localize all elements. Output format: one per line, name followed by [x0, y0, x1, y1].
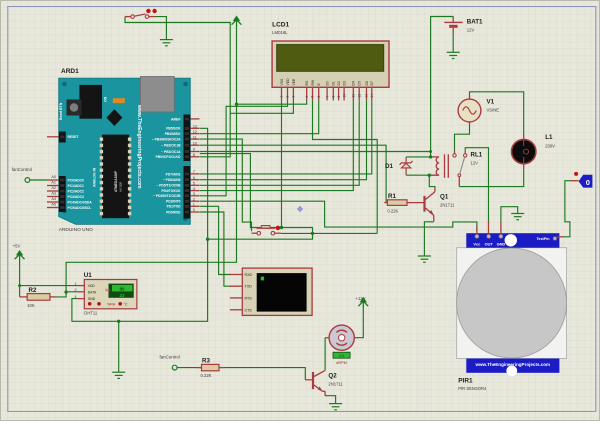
- svg-text:3: 3: [292, 96, 296, 98]
- svg-text:fanControl: fanControl: [12, 167, 32, 172]
- PIR pin stubs: [476, 226, 478, 235]
- svg-text:VSS: VSS: [280, 78, 284, 86]
- svg-text:~ PB2/OC1B: ~ PB2/OC1B: [161, 144, 181, 148]
- Arduino UNO board ARD1: [47, 68, 200, 233]
- LCD pin 2 VDD: [287, 87, 289, 100]
- svg-text:PC5/ADC5/SCL: PC5/ADC5/SCL: [68, 206, 92, 210]
- svg-text:80: 80: [120, 286, 125, 291]
- svg-text:RTS: RTS: [245, 296, 253, 300]
- pin 5: [190, 184, 199, 186]
- wire fanControl to R3: [177, 367, 196, 369]
- ground for BAT1: [447, 52, 460, 58]
- pin 10: [190, 144, 199, 146]
- wire pin11 to pushbutton left: [200, 139, 252, 231]
- right pin header: [184, 115, 191, 162]
- LCD pin 8 D1: [332, 87, 334, 100]
- wire LCD E to pin12: [200, 100, 319, 133]
- svg-text:10K: 10K: [27, 303, 35, 308]
- pushbutton BTN: [252, 226, 281, 236]
- node junction F: [429, 155, 432, 158]
- svg-text:9: 9: [337, 96, 341, 98]
- svg-text:0: 0: [586, 178, 590, 187]
- svg-text:www.TheEngineeringProjects.com: www.TheEngineeringProjects.com: [136, 104, 142, 189]
- origin marker: [297, 206, 303, 212]
- node junction B: [117, 320, 120, 323]
- svg-text:ANALOG IN: ANALOG IN: [93, 167, 97, 187]
- svg-text:12: 12: [193, 130, 197, 134]
- wire Q2 collector to motor: [324, 338, 326, 371]
- wire fanControl to A0: [30, 179, 47, 181]
- svg-text:R2: R2: [29, 287, 37, 294]
- svg-text:2N1711: 2N1711: [440, 203, 455, 208]
- relay RL1: [429, 150, 482, 186]
- pin 9: [190, 151, 199, 153]
- svg-text:RS: RS: [305, 80, 309, 85]
- wire pin2 to PIR Vcc: [200, 201, 477, 231]
- svg-text:PC3/ADC3: PC3/ADC3: [68, 195, 84, 199]
- wire +5V stem to R2: [19, 260, 21, 297]
- node junction G: [428, 174, 431, 177]
- wire LCD D7 to pin7: [200, 100, 372, 173]
- svg-text:D2: D2: [337, 81, 341, 85]
- svg-text:11: 11: [352, 94, 356, 98]
- wire V1 top to L1 top: [470, 92, 524, 134]
- pin A5: [47, 207, 59, 209]
- svg-text:D4: D4: [352, 81, 356, 85]
- pin 11: [190, 138, 199, 140]
- node junction D: [280, 226, 283, 229]
- wire pin9b to button net: [200, 154, 313, 240]
- sensor U1 DHT11: [75, 272, 137, 316]
- wire relay coil to Q1 collector: [429, 175, 435, 187]
- svg-text:10: 10: [193, 141, 197, 145]
- svg-text:A0: A0: [51, 175, 56, 179]
- svg-text:AREF: AREF: [171, 117, 181, 121]
- svg-text:2: 2: [75, 288, 77, 292]
- svg-text:LCD1: LCD1: [272, 22, 289, 29]
- svg-text:Q1: Q1: [440, 194, 449, 201]
- svg-text:14: 14: [370, 94, 374, 98]
- svg-text:~ PD3/INT1/OC2B: ~ PD3/INT1/OC2B: [153, 194, 181, 198]
- svg-text:+5V: +5V: [13, 244, 21, 249]
- svg-text:AU 1126: AU 1126: [119, 182, 123, 192]
- svg-text:D7: D7: [370, 81, 374, 85]
- svg-text:~ PB3/MOSI/OC2A: ~ PB3/MOSI/OC2A: [152, 138, 181, 142]
- svg-text:DHT11: DHT11: [84, 311, 98, 316]
- resistor R1: [384, 193, 423, 214]
- svg-text:D0: D0: [326, 81, 330, 85]
- svg-text:PIR SENSOR4: PIR SENSOR4: [458, 386, 487, 391]
- svg-text:PB5/SCK: PB5/SCK: [166, 127, 181, 131]
- svg-text:PD0/RXD: PD0/RXD: [166, 210, 181, 214]
- capacitor block: [79, 85, 102, 119]
- PIR sensor PIR1: [457, 233, 567, 391]
- wire BAT1 plus to relay rail: [431, 17, 454, 157]
- svg-text:A4: A4: [51, 197, 56, 201]
- svg-text:2: 2: [193, 197, 195, 201]
- reset button: [67, 100, 82, 116]
- svg-text:4: 4: [193, 187, 195, 191]
- svg-text:PD2/INT0: PD2/INT0: [166, 200, 181, 204]
- node junction C: [206, 238, 209, 241]
- wire L1 bottom to relay common: [459, 169, 523, 186]
- wire V1 bottom to relay pole: [455, 126, 470, 151]
- svg-text:12V: 12V: [467, 28, 475, 33]
- ground for Q2: [329, 404, 342, 410]
- svg-text:&gt;: &gt;: [105, 288, 111, 292]
- wire LCD D4 to pin4: [200, 100, 353, 190]
- svg-text:PIR1: PIR1: [458, 378, 473, 385]
- svg-text:0.0: 0.0: [339, 354, 344, 358]
- wire R3 to Q2 base: [225, 368, 306, 380]
- wire LCD RS to power node: [237, 100, 307, 104]
- svg-text:RL1: RL1: [471, 152, 483, 159]
- svg-text:2N1711: 2N1711: [328, 382, 343, 387]
- pin 1: [190, 205, 199, 207]
- source V1 VSINE: [458, 96, 499, 126]
- svg-text:PD1/TXD: PD1/TXD: [167, 205, 182, 209]
- wire LCD D6 to pin6: [200, 100, 367, 179]
- ground for DHT11: [112, 372, 125, 378]
- switch SW1: [125, 9, 157, 19]
- wire power flag down to DHT11 DATA: [66, 25, 236, 292]
- svg-text:PB4/MISO: PB4/MISO: [165, 132, 181, 136]
- svg-text:5: 5: [311, 96, 315, 98]
- wire ground stem DHT: [118, 321, 120, 372]
- svg-text:7: 7: [325, 96, 329, 98]
- LCD LCD1 LM016L: [272, 22, 389, 101]
- svg-text:R3: R3: [202, 358, 210, 365]
- svg-text:VEE: VEE: [292, 78, 296, 86]
- diode D1: [385, 157, 429, 175]
- svg-text:U1: U1: [84, 272, 92, 279]
- svg-text:8: 8: [193, 153, 195, 157]
- svg-text:1: 1: [280, 96, 284, 98]
- svg-text:#RPM: #RPM: [336, 361, 347, 365]
- svg-text:PB0/ICP1/CLKO: PB0/ICP1/CLKO: [156, 155, 181, 159]
- svg-text:PC1/ADC1: PC1/ADC1: [68, 184, 84, 188]
- svg-text:DATA: DATA: [88, 291, 97, 295]
- LCD pin 11 D4: [352, 87, 354, 100]
- svg-text:1: 1: [75, 282, 77, 286]
- pin A3: [47, 196, 59, 198]
- svg-text:TXD: TXD: [245, 285, 253, 289]
- LCD pin 4 RS: [306, 87, 308, 100]
- svg-text:~ PB1/OC1A: ~ PB1/OC1A: [161, 150, 181, 154]
- resistor R3: [196, 358, 225, 378]
- diode diamond: [106, 109, 122, 126]
- AREF pin: [190, 118, 199, 120]
- svg-text:OUT: OUT: [485, 242, 494, 247]
- svg-text:Vcc: Vcc: [473, 242, 481, 247]
- wire BAT1 minus to ground: [452, 34, 454, 52]
- node junction E: [311, 232, 314, 235]
- svg-text:PC4/ADC4/SDA: PC4/ADC4/SDA: [68, 200, 93, 204]
- pin A0: [47, 179, 59, 181]
- ATMEGA328P IC: [102, 135, 129, 219]
- svg-text:0: 0: [193, 208, 195, 212]
- wire LCD VSS down: [281, 100, 283, 227]
- LCD pin 13 D6: [366, 87, 368, 100]
- transistor Q2 2N1711: [305, 370, 343, 395]
- wire probe to TestPin: [563, 181, 571, 237]
- svg-text:8: 8: [332, 96, 336, 98]
- svg-text:D5: D5: [358, 81, 362, 85]
- svg-text:12V: 12V: [471, 161, 479, 166]
- svg-text:0.22K: 0.22K: [387, 209, 398, 214]
- svg-text:GND: GND: [88, 297, 96, 301]
- LCD pin 12 D5: [358, 87, 360, 100]
- pin 7: [190, 173, 199, 175]
- LCD pin 10 D3: [343, 87, 345, 100]
- svg-text:CTS: CTS: [245, 308, 253, 312]
- svg-text:11: 11: [193, 135, 197, 139]
- svg-text:LM016L: LM016L: [272, 30, 288, 35]
- power flag top center: [232, 16, 242, 27]
- virtual terminal VT1: [230, 268, 312, 315]
- svg-text:230V: 230V: [545, 144, 555, 149]
- svg-text:~ PD5/T1/OC0B: ~ PD5/T1/OC0B: [156, 184, 181, 188]
- svg-text:RESET: RESET: [68, 135, 79, 139]
- pin A1: [47, 185, 59, 187]
- wire pin13 long vertical to DHT GND rail: [72, 128, 208, 321]
- wire pin1 to terminal RXD: [200, 206, 231, 274]
- svg-text:0.22K: 0.22K: [201, 373, 212, 378]
- svg-text:R1: R1: [388, 193, 396, 200]
- pin 2: [190, 200, 199, 202]
- svg-text:PC2/ADC2: PC2/ADC2: [68, 189, 84, 193]
- svg-text:1: 1: [193, 203, 195, 207]
- ground for Q1: [418, 256, 431, 262]
- svg-text:%RH: %RH: [107, 302, 116, 306]
- svg-text:D1: D1: [332, 81, 336, 85]
- wire LCD D5 to pin5: [200, 100, 359, 185]
- node junction A: [235, 103, 238, 106]
- svg-text:ARD1: ARD1: [61, 68, 79, 75]
- wire +5V to DHT VDD: [20, 285, 78, 287]
- svg-text:A2: A2: [51, 186, 56, 190]
- pin 0: [190, 211, 199, 213]
- svg-text:VDD: VDD: [88, 284, 96, 288]
- wire DATA node to DHT: [66, 291, 78, 293]
- pin 6: [190, 179, 199, 181]
- svg-text:VDD: VDD: [286, 78, 290, 86]
- svg-text:2: 2: [286, 96, 290, 98]
- wire switch right to ground: [155, 17, 167, 40]
- svg-text:6: 6: [317, 96, 321, 98]
- RESET pin: [47, 136, 59, 138]
- svg-text:PD7/AIN1: PD7/AIN1: [166, 172, 181, 176]
- motor M1: [325, 325, 358, 365]
- node junction H: [64, 290, 67, 293]
- wire LCD RW to pushbutton: [313, 100, 378, 233]
- battery BAT1: [444, 16, 483, 34]
- pin 4: [190, 190, 199, 192]
- wire R2 to DATA node: [57, 292, 67, 297]
- wire button right to RW net: [281, 232, 377, 234]
- resistor R2: [20, 287, 57, 308]
- svg-text:6: 6: [193, 176, 195, 180]
- svg-text:°C: °C: [124, 302, 128, 306]
- wire Q1 emitter to ground: [424, 222, 433, 256]
- svg-text:ATMEGA328P: ATMEGA328P: [114, 170, 118, 192]
- svg-text:9: 9: [193, 148, 195, 152]
- svg-text:7: 7: [193, 170, 195, 174]
- ground for PIR: [511, 214, 524, 220]
- svg-text:13: 13: [365, 94, 369, 98]
- LCD pin 7 D0: [326, 87, 328, 100]
- svg-text:A3: A3: [51, 191, 56, 195]
- pin A2: [47, 190, 59, 192]
- LCD pin 1 VSS: [281, 87, 283, 100]
- svg-text:D6: D6: [365, 81, 369, 85]
- svg-text:D1: D1: [385, 163, 393, 170]
- wire LCD VEE: [230, 100, 293, 113]
- svg-text:A5: A5: [51, 202, 56, 206]
- svg-text:ON: ON: [104, 96, 108, 102]
- wire motor to +12V: [358, 307, 363, 338]
- svg-text:A1: A1: [51, 180, 56, 184]
- LCD pin 3 VEE: [292, 87, 294, 100]
- svg-text:V1: V1: [487, 99, 495, 106]
- LCD pin 14 D7: [371, 87, 373, 100]
- svg-text:PC0/ADC0: PC0/ADC0: [68, 178, 84, 182]
- svg-text:13: 13: [193, 125, 197, 129]
- wire pin0 to terminal TXD: [200, 212, 231, 286]
- wire Q2 emitter to ground: [325, 396, 336, 404]
- ground for switch: [160, 40, 173, 46]
- svg-text:4: 4: [305, 96, 309, 98]
- svg-text:GND: GND: [497, 242, 506, 247]
- wire LCD VDD to pin3: [200, 100, 288, 195]
- wire switch left to bus: [125, 17, 230, 157]
- svg-text:BAT1: BAT1: [467, 19, 483, 26]
- LCD pin 6 E: [318, 87, 320, 100]
- svg-text:RW: RW: [311, 79, 315, 85]
- LCD pin 5 RW: [312, 87, 314, 100]
- svg-text:Q2: Q2: [328, 373, 337, 380]
- wire pin10 to R1: [200, 145, 386, 202]
- svg-text:fanControl: fanControl: [160, 355, 180, 360]
- pin 8: [190, 156, 199, 158]
- pin 13: [190, 127, 199, 129]
- svg-text:D3: D3: [343, 81, 347, 85]
- svg-text:RXD: RXD: [245, 273, 253, 277]
- svg-text:12: 12: [357, 94, 361, 98]
- svg-text:L1: L1: [545, 134, 553, 141]
- wire pin9 long: [200, 151, 431, 153]
- left pin header: [59, 132, 66, 143]
- svg-text:ARDUINO UNO: ARDUINO UNO: [59, 227, 93, 233]
- pin 12: [190, 133, 199, 135]
- svg-text:4: 4: [75, 295, 77, 299]
- usb connector: [140, 77, 174, 113]
- svg-text:TestPin: TestPin: [536, 237, 550, 241]
- pin A4: [47, 201, 59, 203]
- svg-text:5: 5: [193, 182, 195, 186]
- transistor Q1 2N1711: [425, 187, 456, 221]
- svg-text:33: 33: [120, 293, 125, 298]
- lamp L1 230V: [512, 134, 556, 169]
- LCD pin 9 D2: [338, 87, 340, 100]
- logic probe 0: [571, 172, 593, 188]
- svg-text:Reset BTN: Reset BTN: [59, 102, 63, 120]
- svg-text:VSINE: VSINE: [487, 108, 500, 113]
- pin 3: [190, 195, 199, 197]
- wire PIR GND to ground: [501, 207, 518, 221]
- wire relay NO to PIR OUT: [465, 148, 488, 222]
- svg-text:~ PD6/AIN0: ~ PD6/AIN0: [163, 178, 181, 182]
- svg-text:3: 3: [193, 192, 195, 196]
- svg-text:PD4/T0/XCK: PD4/T0/XCK: [161, 189, 181, 193]
- svg-text:10: 10: [342, 94, 346, 98]
